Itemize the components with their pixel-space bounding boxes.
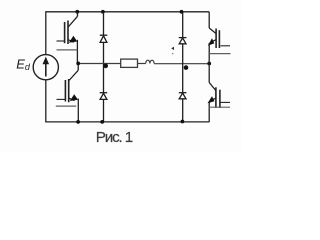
- emitter arrow VT1: [69, 36, 77, 43]
- gate bar: [219, 90, 221, 108]
- diode VD4 (bottom-right): [179, 65, 187, 122]
- mid rail wire right: [154, 63, 209, 65]
- emitter diagonal: [68, 40, 74, 42]
- gate bar: [64, 22, 66, 43]
- diode VD2 (bottom-left): [100, 63, 108, 122]
- emitter tail line VT2: [56, 105, 76, 107]
- emitter lead: [208, 102, 210, 122]
- emitter diagonal: [69, 98, 75, 100]
- channel bar: [215, 87, 217, 108]
- node top right-diode: [180, 10, 184, 14]
- emitter lead: [76, 40, 78, 64]
- stray dot: [172, 53, 174, 55]
- collector lead: [77, 63, 79, 70]
- node mid left-leg: [76, 62, 80, 66]
- gate lead: [221, 101, 231, 103]
- transistor VT2 (bottom-left IGBT): [57, 63, 79, 122]
- transistor VT1 (top-left IGBT): [57, 12, 78, 64]
- emitter tail line VT3: [209, 53, 230, 55]
- gate bar: [64, 80, 66, 102]
- top bus wire: [46, 11, 209, 13]
- node top left-diode: [101, 10, 105, 14]
- collector lead: [77, 12, 79, 16]
- emitter diagonal: [211, 40, 216, 42]
- diode VD3 (top-right): [179, 12, 187, 65]
- emitter arrow VT4: [208, 96, 215, 103]
- resistor R load: [121, 59, 138, 67]
- emitter tail line VT4: [209, 106, 230, 108]
- diode VD1 (top-left): [100, 12, 108, 64]
- emitter arrow VT2: [70, 94, 78, 101]
- emitter arrow VT3: [208, 38, 215, 45]
- inductor L load: [146, 60, 154, 63]
- gate bar: [218, 30, 220, 48]
- node bottom right-diode: [181, 120, 185, 124]
- node mid left-diode (offset): [103, 64, 108, 69]
- emitter tail line VT1: [57, 49, 78, 51]
- mid rail wire left: [78, 63, 121, 65]
- gate lead: [221, 45, 231, 47]
- bottom bus wire: [46, 121, 210, 123]
- collector lead: [208, 63, 210, 82]
- node top-left leg: [75, 10, 79, 14]
- channel bar: [67, 21, 69, 45]
- gate lead: [57, 98, 66, 100]
- svg-text:Ed: Ed: [16, 56, 31, 72]
- node mid right-leg: [207, 62, 211, 66]
- stray tick mark: [171, 47, 174, 50]
- gate lead: [57, 40, 65, 42]
- emitter lead: [77, 99, 79, 123]
- wire source top: [45, 11, 47, 54]
- source Ed circle: [33, 55, 58, 80]
- node bottom left-leg: [76, 120, 80, 124]
- source arrow: [45, 62, 47, 77]
- caption Рис. 1: [96, 129, 132, 146]
- channel bar: [215, 29, 217, 49]
- transistor VT4 (bottom-right IGBT): [209, 63, 230, 122]
- emitter diagonal: [211, 98, 216, 100]
- channel bar: [68, 79, 70, 102]
- node mid right-diode (offset): [184, 65, 189, 70]
- wire source bottom: [45, 80, 47, 123]
- wire resistor to inductor: [138, 63, 146, 65]
- collector lead: [208, 12, 210, 28]
- emitter lead: [208, 43, 210, 63]
- transistor VT3 (top-right IGBT): [209, 12, 230, 64]
- node bottom left-diode: [100, 120, 104, 124]
